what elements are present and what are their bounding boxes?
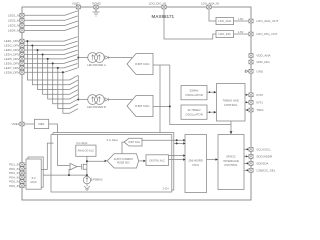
pin LDO_DIG_OUT — [249, 32, 253, 36]
wire LED2_DRV to switch — [24, 41, 78, 45]
arrowhead osc2 to timing — [214, 111, 217, 114]
wire LED3_DRV to switch — [24, 46, 78, 50]
svg-text:256-WORD: 256-WORD — [188, 158, 202, 162]
pin LDO_ANA_IN — [207, 5, 211, 9]
block 256-WORD FIFO — [185, 135, 207, 193]
block ANALOG ALC — [76, 145, 96, 156]
svg-text:1.8V: 1.8V — [238, 30, 244, 34]
wire DAC data line to FIFO — [142, 139, 184, 141]
svg-text:LED4_DRV: LED4_DRV — [4, 53, 19, 57]
svg-text:LDO_DIG_IN: LDO_DIG_IN — [149, 1, 166, 5]
arrowhead osc1 to timing — [214, 91, 217, 94]
RECEIVE — [24, 119, 186, 192]
svg-text:6:2: 6:2 — [32, 176, 36, 180]
dac U2 8-BIT DAC A — [127, 53, 153, 74]
wire mux output channel 2 — [41, 143, 53, 169]
arrow PDBIAS label — [91, 178, 92, 181]
svg-text:OSCILLATOR: OSCILLATOR — [185, 93, 202, 97]
pin VREF — [20, 122, 24, 126]
pin LED8_DRV — [20, 70, 24, 74]
svg-text:LED4_M: LED4_M — [8, 29, 20, 33]
pin LED1_M — [20, 13, 24, 17]
svg-text:VDD_ANA: VDD_ANA — [256, 54, 270, 58]
pin LED7_DRV — [20, 66, 24, 70]
wire node to ADC — [87, 160, 105, 162]
LDO-SECTION — [164, 9, 279, 73]
OSC-TIMING — [181, 84, 264, 122]
regulator LDO_ANA — [216, 17, 234, 24]
svg-text:INT1: INT1 — [256, 100, 263, 104]
mux 6:2 MUX back box — [28, 157, 43, 187]
junction crossbar dot 5 — [47, 58, 49, 60]
pin PD1_IN — [20, 163, 24, 167]
diode arrow at driver B output — [105, 98, 108, 101]
block SPI I2C INTERFACE CONTROL — [218, 135, 244, 190]
junction osc2 arrow dot — [209, 111, 211, 113]
svg-text:PGND: PGND — [92, 1, 100, 5]
svg-text:LED DRIVER B: LED DRIVER B — [87, 105, 106, 109]
wire timing control to serial block arrow — [230, 121, 232, 132]
pin LED4_M — [20, 29, 24, 33]
DRIVERS — [78, 53, 231, 133]
svg-text:32.768kHz: 32.768kHz — [187, 108, 201, 112]
wire bus to driver A — [78, 57, 87, 59]
svg-text:TRIG: TRIG — [256, 108, 264, 112]
svg-text:LED7_DRV: LED7_DRV — [4, 66, 19, 70]
svg-text:LDO_ANA_OUT: LDO_ANA_OUT — [256, 19, 278, 23]
arrowhead SCLK — [246, 148, 248, 150]
pin GND — [249, 69, 253, 73]
arrowhead DAC data into FIFO — [183, 139, 185, 141]
svg-text:LDO_DIG_OUT: LDO_DIG_OUT — [256, 32, 277, 36]
transistor M1 — [82, 164, 87, 170]
svg-text:VLED: VLED — [72, 1, 80, 5]
arrowhead ALC out 1 into FIFO — [183, 154, 185, 156]
pin PD4_IN — [20, 175, 24, 179]
wire PD6 stub — [24, 185, 26, 187]
wire crossbar column 6 — [53, 63, 78, 103]
svg-text:LED1_M: LED1_M — [8, 13, 20, 17]
chip outline U1 — [22, 7, 251, 200]
wire crossbar column 1 — [27, 41, 78, 80]
svg-text:VREF: VREF — [12, 122, 20, 126]
svg-text:GND: GND — [256, 69, 264, 73]
wire LED7_DRV to switch — [24, 64, 78, 68]
wire PDBIAS to ground — [86, 184, 88, 186]
svg-text:CONTROL: CONTROL — [224, 163, 238, 167]
arrowhead ALC out 2 into FIFO — [183, 158, 185, 160]
wire REF output to channel — [49, 124, 70, 166]
pin VLED — [76, 5, 80, 9]
wire PD1 stub — [24, 164, 26, 166]
svg-text:LED5_DRV: LED5_DRV — [4, 57, 19, 61]
junction crossbar dot 7 — [57, 67, 59, 69]
pin SDI/SDA — [249, 162, 253, 166]
oscillator 32.768kHz — [181, 105, 207, 119]
svg-text:LED3_DRV: LED3_DRV — [4, 48, 19, 52]
svg-text:OSCILLATOR: OSCILLATOR — [185, 112, 202, 116]
channel box back (2-CH) — [53, 133, 174, 190]
pin LED1_DRV — [20, 39, 24, 43]
pin SDO/ADDR — [249, 155, 253, 159]
svg-text:INTERFACE: INTERFACE — [223, 159, 239, 163]
wire LED2_M to switch — [24, 16, 78, 20]
wire DAC B output — [153, 105, 170, 107]
pin LED2_DRV — [20, 44, 24, 48]
pin LED4_DRV — [20, 53, 24, 57]
wire VLED bus — [77, 9, 79, 68]
svg-text:DIGITAL ALC: DIGITAL ALC — [149, 158, 165, 162]
wire REF vertical overdraw — [58, 135, 71, 166]
pin PD2_IN — [20, 167, 24, 171]
wire PD5 stub — [24, 181, 26, 183]
wire LDO_DIG output — [234, 33, 249, 35]
arrowhead SDI — [246, 162, 248, 164]
svg-text:FIFO: FIFO — [193, 163, 200, 167]
wire LED6_DRV to switch — [24, 59, 78, 63]
regulator LDO_DIG — [216, 30, 234, 37]
pin LED3_M — [20, 24, 24, 28]
pin LDO_DIG_IN — [162, 5, 166, 9]
svg-text:MAX86171: MAX86171 — [152, 14, 175, 19]
wire LED5_DRV to switch — [24, 55, 78, 59]
svg-text:SDO/ADDR: SDO/ADDR — [256, 155, 273, 159]
current source LED DRIVER A — [88, 53, 98, 63]
mux 6:2 MUX front box — [26, 159, 41, 189]
wire SCLK stub — [244, 148, 249, 150]
svg-text:0 to 32µA: 0 to 32µA — [76, 141, 87, 145]
svg-text:MODE ADC: MODE ADC — [117, 162, 130, 165]
wire DAC A output — [153, 64, 170, 66]
dac U3 8-BIT DAC B — [127, 95, 153, 116]
block REF — [34, 119, 48, 128]
wire LDO_ANA_IN routing — [209, 9, 216, 21]
wire VREF to REF — [24, 123, 34, 125]
svg-text:REF: REF — [39, 122, 45, 126]
svg-text:LED6_DRV: LED6_DRV — [4, 62, 19, 66]
SWITCH-MATRIX — [24, 9, 78, 113]
junction node top dot — [86, 160, 88, 162]
PINS-TOP — [72, 1, 219, 16]
pin VDD_ANA — [249, 54, 253, 58]
pin PD6_IN — [20, 184, 24, 188]
dac feedback 8-BIT DAC — [124, 138, 142, 146]
junction channel2 data dot — [176, 142, 178, 144]
svg-text:CONTROL: CONTROL — [224, 103, 238, 107]
pin INT2 — [249, 93, 253, 97]
wire DIGITAL ALC out 1 — [169, 155, 184, 157]
wire LDO_DIG_IN routing — [164, 9, 216, 39]
wire channel2 data line to FIFO — [174, 142, 184, 144]
arrowhead into serial block — [230, 131, 233, 134]
wire op-amp output to gate — [77, 166, 81, 168]
wire osc1 to timing — [207, 91, 214, 93]
arrowhead SDO — [246, 155, 248, 157]
arrow GND — [245, 70, 249, 73]
wire TRIG stub — [245, 109, 249, 111]
junction driver B bus dot — [77, 99, 79, 101]
svg-text:LED3_M: LED3_M — [8, 24, 20, 28]
wire LED4_M to switch — [24, 26, 78, 30]
svg-text:INT2: INT2 — [256, 93, 263, 97]
wire SDO stub — [244, 155, 249, 157]
wire LDO_ANA output — [234, 20, 249, 22]
svg-text:PD6_IN: PD6_IN — [9, 184, 20, 188]
pin LED6_DRV — [20, 62, 24, 66]
wire DAC tap down to receive block — [159, 65, 161, 133]
wire crossbar column 7 — [58, 68, 78, 109]
svg-text:SDI/SDA: SDI/SDA — [256, 162, 268, 166]
junction crossbar dot 8 — [62, 71, 64, 73]
wire INT1 stub — [245, 101, 249, 103]
pin CSB/I2C_SEL — [249, 168, 253, 172]
wire CSB stub — [244, 169, 249, 171]
wire driver B bus — [77, 75, 79, 99]
wire osc2 to timing — [207, 111, 214, 113]
arrowhead CSB — [246, 169, 248, 171]
arrowhead ADC to DIGITAL ALC — [143, 160, 146, 162]
svg-text:1.8V: 1.8V — [238, 17, 244, 21]
pin PD5_IN — [20, 180, 24, 184]
wire DIGITAL ALC out 2 — [169, 159, 184, 161]
wire LED1_M to switch — [24, 11, 78, 15]
svg-text:MUX: MUX — [30, 180, 36, 184]
wire PD2 stub — [24, 168, 26, 170]
svg-text:CSB/I2C_SEL: CSB/I2C_SEL — [256, 168, 275, 172]
svg-text:LED2_M: LED2_M — [8, 18, 20, 22]
wire DAC output bus to control — [170, 65, 231, 125]
wire LED8_DRV to switch — [24, 68, 78, 72]
wire ADC to DIGITAL ALC — [139, 160, 145, 162]
wire PD3 stub — [24, 172, 26, 174]
svg-text:0 to 16µA: 0 to 16µA — [107, 138, 118, 142]
svg-text:SCLK/SCL: SCLK/SCL — [256, 147, 271, 151]
junction crossbar dot 2 — [31, 45, 33, 47]
FIFO-SPI — [185, 135, 276, 193]
svg-text:LED DRIVER A: LED DRIVER A — [87, 63, 106, 67]
pin LED3_DRV — [20, 48, 24, 52]
svg-text:SPI/I2C: SPI/I2C — [226, 154, 236, 158]
oscillator 32MHz — [181, 86, 207, 100]
wire branch to op-amp positive input — [69, 170, 70, 176]
junction mux line op-amp dot — [68, 174, 70, 176]
wire SDI stub — [244, 162, 249, 164]
wire LED3_M to switch — [24, 21, 78, 25]
wire driver A to DAC A — [108, 57, 132, 59]
junction DAC data dot — [176, 139, 178, 141]
block DIGITAL ALC — [146, 155, 169, 166]
svg-text:PDBIAS: PDBIAS — [93, 178, 103, 182]
wire crossbar column 4 — [43, 55, 78, 95]
pin PD3_IN — [20, 171, 24, 175]
wire LED1_DRV to switch — [24, 37, 78, 41]
arrowhead INT2 — [246, 94, 248, 96]
svg-text:2-CH: 2-CH — [162, 186, 168, 190]
svg-text:8-BIT DAC: 8-BIT DAC — [135, 62, 150, 66]
svg-text:LED8_DRV: LED8_DRV — [4, 70, 19, 74]
wire INT2 stub — [245, 94, 249, 96]
junction DAC B output dot — [169, 105, 171, 107]
arrowhead INT1 — [246, 101, 248, 103]
ground PDBIAS — [84, 186, 90, 190]
block TIMING AND CONTROL — [217, 84, 246, 122]
arrowhead FIFO to serial — [215, 158, 218, 161]
wire PGND stub — [95, 9, 97, 12]
junction driver A bus dot — [77, 57, 79, 59]
pin LDO_ANA_OUT — [249, 19, 253, 23]
pin TRIG — [249, 108, 253, 112]
wire node vertical — [86, 161, 88, 176]
op-amp A1 — [70, 163, 77, 170]
wire FIFO to serial — [207, 159, 217, 161]
svg-text:32MHz: 32MHz — [190, 88, 199, 92]
wire LED4_DRV to switch — [24, 50, 78, 54]
svg-text:TIMING AND: TIMING AND — [223, 99, 239, 103]
svg-text:VDD_DIG: VDD_DIG — [256, 60, 270, 64]
wire ALC to node — [86, 156, 88, 161]
pin SCLK/SCL — [249, 147, 253, 151]
pin INT1 — [249, 100, 253, 104]
junction osc1 arrow dot — [209, 91, 211, 93]
svg-text:ANALOG ALC: ANALOG ALC — [78, 149, 95, 153]
pin VDD_DIG — [249, 60, 253, 64]
ground PGND — [93, 12, 100, 16]
current source PDBIAS — [83, 176, 90, 183]
junction node bottom dot — [86, 174, 88, 176]
wire driver B to DAC B — [108, 99, 132, 101]
svg-text:8-BIT DAC: 8-BIT DAC — [129, 141, 141, 144]
wire bus to driver B — [78, 99, 87, 101]
wire mux output main — [43, 174, 87, 176]
LEFT-PINS — [4, 13, 24, 188]
wire crossbar column 2 — [32, 46, 78, 85]
adc 20-BIT CURRENT MODE ADC — [107, 154, 138, 168]
svg-text:LED2_DRV: LED2_DRV — [4, 44, 19, 48]
pin PGND — [94, 5, 98, 9]
wire crossbar column 8 — [63, 72, 78, 113]
svg-text:LED1_DRV: LED1_DRV — [4, 39, 19, 43]
junction crossbar dot 3 — [37, 49, 39, 51]
current source LED DRIVER B — [88, 95, 98, 105]
pin LED2_M — [20, 18, 24, 22]
svg-text:8-BIT DAC: 8-BIT DAC — [135, 104, 150, 108]
svg-text:LDO_DIG: LDO_DIG — [219, 32, 231, 36]
wire PD4 stub — [24, 176, 26, 178]
junction crossbar dot 6 — [52, 62, 54, 64]
junction crossbar dot 1 — [26, 40, 28, 42]
channel box front — [51, 135, 172, 192]
arrowhead TRIG — [246, 109, 248, 111]
arrowhead channel2 data into FIFO — [183, 142, 185, 144]
wire crossbar column 3 — [38, 50, 79, 90]
pin LED5_DRV — [20, 57, 24, 61]
wire crossbar column 5 — [48, 59, 78, 99]
diode arrow at driver A output — [105, 56, 108, 59]
arrowhead into ADC — [105, 160, 108, 162]
junction crossbar dot 4 — [42, 54, 44, 56]
wire DAC feedback to ADC — [122, 142, 124, 154]
svg-text:LDO_ANA: LDO_ANA — [218, 19, 231, 23]
svg-text:LDO_ANA_IN: LDO_ANA_IN — [201, 1, 219, 5]
